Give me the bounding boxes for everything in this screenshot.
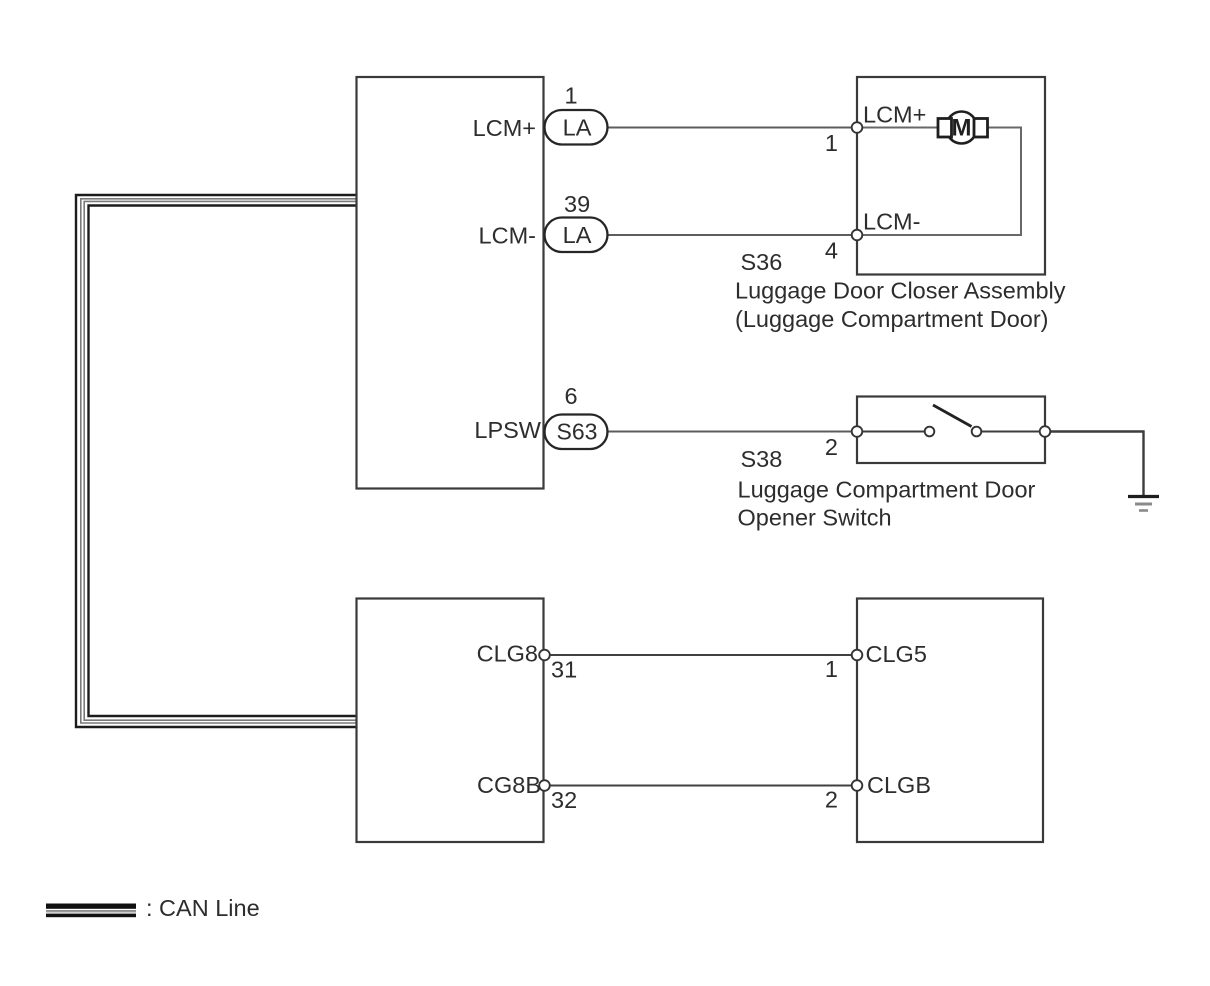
svg-text:CLG5: CLG5 — [866, 641, 927, 667]
svg-text:S38: S38 — [741, 446, 783, 472]
CAN line (outer black) — [76, 195, 357, 727]
svg-text:4: 4 — [825, 238, 838, 264]
connector oval S63 pin 6 — [545, 415, 608, 450]
svg-text:6: 6 — [565, 383, 578, 409]
switch right pin circle — [1040, 426, 1051, 437]
legend CAN swatch — [46, 904, 136, 918]
wire CLG8 to CLG5 — [545, 654, 858, 656]
svg-text:32: 32 — [551, 787, 577, 813]
CAN line (middle gray inner) — [84, 201, 356, 720]
svg-text:31: 31 — [551, 657, 577, 683]
wire switch to ground — [1045, 432, 1144, 497]
wire LPSW (ECU to switch pin 2) — [608, 431, 858, 433]
S36 pin 1 circle — [852, 122, 863, 133]
svg-text:Luggage Compartment Door: Luggage Compartment Door — [738, 477, 1036, 503]
ECU box (top left) — [357, 77, 544, 489]
svg-text:LA: LA — [563, 115, 592, 141]
connector oval LA pin 39 — [545, 218, 608, 253]
motor brush left — [938, 119, 952, 138]
svg-text:LCM-: LCM- — [863, 209, 920, 235]
switch box S38 — [857, 397, 1045, 464]
switch inner wire left — [862, 431, 925, 433]
svg-text:M: M — [952, 115, 972, 142]
switch blade — [933, 405, 972, 427]
connector oval LA pin 1 — [545, 110, 608, 145]
CAN line (inner black) — [89, 206, 357, 717]
CLG5 pin circle — [852, 650, 863, 661]
svg-text:S63: S63 — [557, 419, 598, 445]
svg-text:S36: S36 — [741, 249, 783, 275]
CG8B pin circle — [539, 780, 550, 791]
motor M1 circle — [946, 112, 977, 144]
switch contact right — [972, 427, 982, 437]
svg-text:CLGB: CLGB — [867, 772, 931, 798]
svg-text:LCM+: LCM+ — [473, 115, 536, 141]
ground symbol — [1128, 495, 1159, 498]
S36 pin 4 circle — [852, 230, 863, 241]
svg-text:CLG8: CLG8 — [477, 641, 538, 667]
svg-text:2: 2 — [825, 787, 838, 813]
wire LCM+ (ECU to S36 pin 1) — [608, 127, 858, 129]
CLG8 pin circle — [539, 650, 550, 661]
svg-text:: CAN Line: : CAN Line — [146, 895, 260, 921]
wire LCM- (ECU to S36 pin 4) — [608, 234, 858, 236]
switch contact left — [925, 427, 935, 437]
svg-text:2: 2 — [825, 434, 838, 460]
svg-text:(Luggage Compartment Door): (Luggage Compartment Door) — [735, 306, 1049, 332]
svg-text:LCM-: LCM- — [479, 223, 536, 249]
CLGB pin circle — [852, 780, 863, 791]
svg-text:LCM+: LCM+ — [863, 102, 926, 128]
motor loop wire inside S36 — [857, 128, 1021, 236]
S36 box (Luggage Door Closer Assembly) — [857, 77, 1045, 275]
motor brush right — [974, 119, 988, 138]
switch pin 2 circle — [852, 426, 863, 437]
svg-text:39: 39 — [564, 191, 590, 217]
svg-text:CG8B: CG8B — [477, 772, 541, 798]
svg-text:LA: LA — [563, 222, 592, 248]
switch inner wire right — [981, 431, 1040, 433]
svg-text:LPSW: LPSW — [474, 417, 541, 443]
CAN line (middle gray outer) — [81, 199, 357, 723]
wire CG8B to CLGB — [545, 785, 858, 787]
svg-text:1: 1 — [565, 83, 578, 109]
svg-text:Luggage Door Closer Assembly: Luggage Door Closer Assembly — [735, 278, 1066, 304]
svg-text:1: 1 — [825, 130, 838, 156]
bottom-left box — [357, 599, 544, 843]
svg-text:Opener Switch: Opener Switch — [738, 505, 892, 531]
bottom-right box — [857, 599, 1043, 843]
svg-text:1: 1 — [825, 656, 838, 682]
